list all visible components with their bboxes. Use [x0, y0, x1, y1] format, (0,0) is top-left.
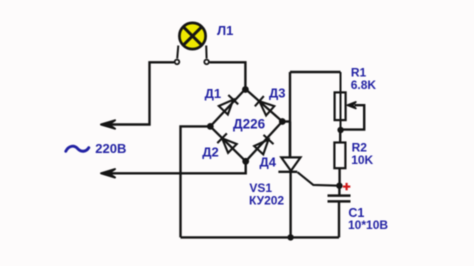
wire: R2 bottom to C1 junction	[338, 168, 340, 186]
lamp lead right	[205, 46, 207, 59]
svg-text:Д1: Д1	[205, 86, 222, 101]
wire: C1 bottom plate to bottom rail	[338, 203, 340, 238]
arrowhead upper mains (barbed)	[101, 120, 115, 128]
node bottom (bridge)	[242, 158, 249, 165]
svg-text:6.8K: 6.8K	[351, 78, 377, 92]
svg-text:Л1: Л1	[217, 23, 233, 38]
wire: top horizontal to R1	[290, 71, 341, 73]
svg-text:КУ202: КУ202	[249, 193, 284, 207]
svg-text:Д2: Д2	[202, 145, 219, 160]
lamp L1 body	[179, 23, 205, 49]
bridge edge bottom-left	[210, 126, 245, 161]
svg-text:10*10В: 10*10В	[348, 218, 388, 232]
thyristor VS1 triangle	[281, 157, 300, 171]
svg-text:Д3: Д3	[269, 85, 286, 100]
thyristor cathode wire	[289, 172, 291, 238]
R1 wiper arrow (barbed)	[347, 102, 355, 108]
junction dot gate / R2 / C1	[336, 183, 342, 189]
node left (bridge)	[207, 123, 214, 130]
svg-text:Д226: Д226	[233, 116, 266, 131]
bridge edge top-right	[245, 89, 282, 122]
resistor R1 (potentiometer body)	[335, 92, 346, 120]
svg-text:220В: 220В	[95, 141, 126, 156]
svg-text:Д4: Д4	[260, 154, 277, 169]
terminal circle left	[175, 60, 180, 65]
diode D1	[218, 95, 238, 115]
thyristor VS1: anode wire	[289, 122, 291, 158]
node top (bridge)	[242, 86, 249, 93]
wire: down into R1 (passes through body)	[340, 72, 342, 130]
resistor R2	[334, 143, 345, 169]
capacitor C1 bottom plate	[328, 200, 351, 203]
diode D4	[254, 135, 274, 155]
lamp lead left	[177, 46, 178, 59]
bridge edge top-left	[210, 89, 245, 126]
wire: left node to left rail, down to bottom rail	[181, 126, 211, 237]
diode D2	[217, 133, 237, 153]
wire: right rail vertical (anode + R1 branch)	[289, 72, 291, 157]
node right (bridge)	[279, 118, 286, 125]
terminal circle right	[204, 60, 209, 65]
wire: R1 junction to R2	[339, 130, 341, 143]
wire: right terminal to bridge top node	[210, 62, 246, 89]
diode D3	[255, 96, 275, 116]
wire: bottom rail	[181, 236, 340, 238]
junction dot bottom rail / thyristor cathode	[287, 234, 293, 240]
R1 wiper wire	[341, 105, 364, 129]
junction dot R1 bottom	[337, 127, 343, 133]
AC tilde symbol	[66, 146, 89, 151]
bridge edge bottom-right	[246, 122, 283, 162]
arrowhead lower mains (barbed)	[101, 169, 115, 177]
svg-text:10K: 10K	[351, 153, 373, 167]
wire: junction to C1 top plate	[338, 186, 340, 195]
thyristor gate wire	[298, 172, 340, 186]
thyristor VS1 cathode bar	[278, 171, 297, 173]
plus sign (red)	[343, 183, 350, 190]
wire: right node stub	[282, 120, 290, 122]
wire: left terminal to upper mains arrow	[110, 62, 174, 124]
capacitor C1 top plate	[328, 194, 351, 197]
wire: lower mains to bridge bottom node	[108, 161, 246, 173]
